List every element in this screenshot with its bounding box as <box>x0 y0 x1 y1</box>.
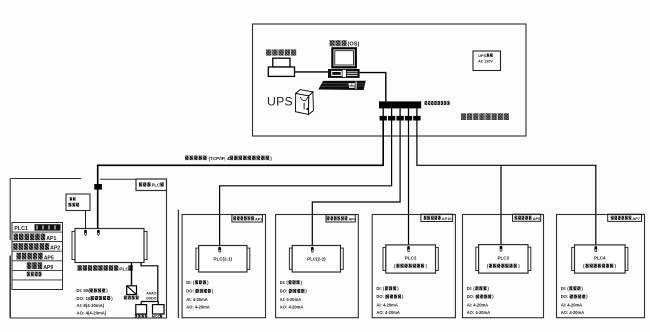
svg-text:UPS: UPS <box>267 94 293 108</box>
svg-text:DI: 50(: DI: 50( <box>77 288 91 293</box>
svg-text:(OS): (OS) <box>348 42 360 48</box>
cabinet pin 2 <box>97 230 100 236</box>
svg-text:AP5: AP5 <box>44 255 54 261</box>
svg-text:DI: (: DI: ( <box>376 286 385 291</box>
PLC unit PLC4 <box>572 245 628 273</box>
svg-text:AP9: AP9 <box>43 265 53 271</box>
svg-text:DI: (: DI: ( <box>467 286 476 291</box>
svg-text:AI: 8(4-20mA): AI: 8(4-20mA) <box>77 303 105 308</box>
svg-text:DI: (: DI: ( <box>280 280 289 285</box>
PLC pin <box>311 247 314 253</box>
svg-text:AI: 4-20mA: AI: 4-20mA <box>186 297 207 302</box>
svg-text:DO: (: DO: ( <box>376 294 387 299</box>
wire cabinet to valve <box>131 263 133 286</box>
svg-text:AO: 4-20mA: AO: 4-20mA <box>280 305 303 310</box>
PLC pin <box>595 246 598 252</box>
svg-text:DO: 16(: DO: 16( <box>77 296 93 301</box>
PLC label PLC(2-2) <box>307 256 326 261</box>
wire port5 to PLC3 and PLC4 <box>417 121 596 247</box>
svg-text:(TCP/IP, 4: (TCP/IP, 4 <box>209 156 230 161</box>
room box 综合楼机房AP7 <box>557 215 645 318</box>
svg-text:DO: (: DO: ( <box>280 289 291 294</box>
label 操作站(OS) <box>330 40 360 47</box>
room corner label 提升泵房AP10 <box>421 214 453 221</box>
left room box 综合楼 PLC柜间 <box>10 179 166 319</box>
svg-text:PLC2: PLC2 <box>405 256 417 261</box>
svg-text:DO: (: DO: ( <box>467 294 478 299</box>
cable connector on wire1 <box>94 184 102 190</box>
svg-text:AP7: AP7 <box>632 216 640 221</box>
room box 综合楼配电室AP6 <box>463 215 544 318</box>
svg-text:AO: 4-20mA: AO: 4-20mA <box>376 310 399 315</box>
svg-text:UPS: UPS <box>478 54 486 58</box>
PLC label PLC2 <box>405 256 417 261</box>
PLC1 cabinet 综合楼水泵电控室PLC柜 <box>72 229 147 263</box>
control room box 综合楼中心控制室 <box>253 24 527 136</box>
svg-text:DI: (: DI: ( <box>186 280 195 285</box>
motor valve symbol <box>127 286 137 295</box>
room box 提升泵房AP10 <box>372 215 455 318</box>
table row AP1 <box>14 234 57 243</box>
svg-text:AP6: AP6 <box>533 216 541 221</box>
room corner label 综合楼配电室AP6 <box>513 214 542 221</box>
UPS power label box AC 220V <box>473 51 501 71</box>
svg-text:AP3: AP3 <box>255 216 263 221</box>
IO list 综合楼机房AP7 <box>561 286 589 315</box>
instrument box "气" 液位计 <box>66 194 90 211</box>
wire port4 to PLC2 <box>408 121 410 247</box>
svg-text:AO: 4-20mA: AO: 4-20mA <box>561 310 584 315</box>
PLC unit PLC2 <box>383 245 438 273</box>
wire instrument to cabinet pin1 <box>85 211 87 230</box>
operator station monitor <box>332 48 355 67</box>
PLC label PLC(2-1) <box>214 256 233 261</box>
wire computer to switch <box>360 73 386 102</box>
table row AP2 <box>13 243 60 252</box>
cabinet label 综合楼水泵电控室PLC柜 <box>78 265 133 272</box>
PLC sub label module note <box>394 263 428 268</box>
svg-text:DO: (: DO: ( <box>561 294 572 299</box>
svg-text:PLC(2-2): PLC(2-2) <box>307 256 326 261</box>
left box IO list <box>77 288 114 315</box>
PLC1 scope table <box>12 223 63 290</box>
room box 一号风机房AP3 <box>182 215 265 318</box>
label AI/AO DI/DO <box>146 292 156 301</box>
riser line left of AP3 box <box>177 210 179 319</box>
svg-text:MCC: MCC <box>152 315 161 319</box>
svg-text:AI: 4-20mA: AI: 4-20mA <box>467 302 488 307</box>
room box 一号风机房AP4 <box>276 215 359 318</box>
operator station keyboard <box>318 81 366 90</box>
PLC unit PLC(2-1) <box>196 246 250 273</box>
svg-text:AP4: AP4 <box>349 216 357 221</box>
IO list 一号风机房AP3 <box>186 280 214 310</box>
wire port3 to PLC(2-2) <box>312 121 400 247</box>
svg-text:PLC4: PLC4 <box>594 256 606 261</box>
wire printer to computer <box>295 71 329 73</box>
svg-text:DO: (: DO: ( <box>186 289 197 294</box>
table row 现场仪表 <box>27 272 42 277</box>
PLC pin <box>407 246 410 252</box>
wire cabinet to MCC branch <box>141 263 158 305</box>
PLC sub label module note <box>487 263 521 268</box>
table row AP5 <box>17 253 54 262</box>
IO list 一号风机房AP4 <box>280 280 308 310</box>
MCC label <box>152 314 162 318</box>
PLC pin <box>218 247 221 253</box>
svg-text:AO: 4-20mA: AO: 4-20mA <box>186 305 209 310</box>
wire port2 to PLC(2-1) <box>220 121 392 247</box>
switch port stems <box>383 108 417 116</box>
label 综合楼中心控制室 <box>461 113 509 120</box>
svg-text:PLC1: PLC1 <box>14 226 28 232</box>
room corner label 一号风机房AP4 <box>326 215 357 222</box>
room corner label 一号风机房AP3 <box>232 215 264 222</box>
svg-text:AC 220V: AC 220V <box>478 59 493 63</box>
switch port connectors <box>380 116 421 121</box>
field instrument box <box>136 305 147 314</box>
svg-text:AI: 4-20mA: AI: 4-20mA <box>561 302 582 307</box>
valve label 电动调节阀 <box>124 296 139 300</box>
svg-text:AP2: AP2 <box>50 246 60 252</box>
svg-text:PLC: PLC <box>119 267 129 273</box>
PLC sub label module note <box>583 263 617 268</box>
IO list 提升泵房AP10 <box>376 286 404 315</box>
table row AP9 <box>27 262 54 271</box>
svg-text:AI: 4-20mA: AI: 4-20mA <box>280 297 301 302</box>
svg-text:AP1: AP1 <box>46 236 56 242</box>
room corner label 综合楼机房AP7 <box>608 214 642 221</box>
PLC label PLC3 <box>498 256 510 261</box>
PLC unit PLC3 <box>476 245 531 274</box>
label 激光打印机 <box>266 49 296 55</box>
svg-text:AP10: AP10 <box>442 216 452 221</box>
MCC box <box>153 305 165 314</box>
operator station system unit <box>328 69 360 78</box>
industrial ethernet switch 工业以太网交换机 <box>379 101 421 108</box>
svg-text:AO: 4-20mA: AO: 4-20mA <box>467 310 490 315</box>
field instrument label 现场仪表 <box>135 314 147 317</box>
svg-text:DI/DO: DI/DO <box>146 297 156 301</box>
label 工业以太网(TCP/IP 光缆) <box>185 156 272 162</box>
cabinet pin 1 <box>84 230 87 236</box>
laser printer <box>268 58 294 76</box>
IO list 综合楼配电室AP6 <box>467 286 495 315</box>
PLC pin <box>500 246 503 252</box>
label UPS <box>267 94 293 108</box>
svg-text:DI: (: DI: ( <box>561 286 570 291</box>
table row PLC1 监控范围 <box>14 224 60 232</box>
svg-text:AI/AO: AI/AO <box>146 292 156 296</box>
svg-text:AI: 4-20mA: AI: 4-20mA <box>376 302 397 307</box>
left room corner label 综合楼PLC柜 <box>136 179 167 191</box>
svg-text:AO: 4(4-20mA): AO: 4(4-20mA) <box>77 311 107 316</box>
UPS tower unit <box>296 90 314 115</box>
label 工业以太网交换机 <box>425 101 450 105</box>
svg-text:PLC(2-1): PLC(2-1) <box>214 256 233 261</box>
PLC unit PLC(2-2) <box>289 246 343 273</box>
svg-text:PLC: PLC <box>152 183 160 188</box>
wire port1 to PLC1 cabinet <box>98 121 384 230</box>
PLC label PLC4 <box>594 256 606 261</box>
svg-text:PLC3: PLC3 <box>498 256 510 261</box>
